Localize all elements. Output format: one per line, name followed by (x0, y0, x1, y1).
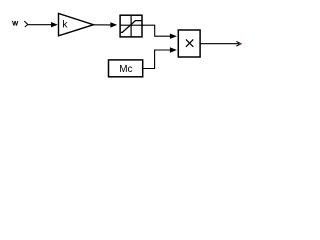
product block (178, 30, 200, 57)
product sign x stroke 1 (186, 39, 193, 46)
saturation block U1 (120, 15, 142, 37)
red tip mark on output arrow (239, 43, 241, 45)
svg-text:k: k (62, 18, 68, 30)
output open arrowhead (236, 42, 241, 47)
wire Mc to product (elbow up) (143, 50, 171, 69)
wire saturation to product (elbow down) (142, 25, 170, 36)
arrowhead into product top input (170, 34, 177, 39)
saturation vertical axis (130, 15, 132, 37)
wire from gain to saturation (94, 24, 111, 26)
output wire (200, 43, 240, 45)
arrowhead into product bottom input (170, 47, 177, 52)
wire from input port to gain (28, 24, 52, 26)
saturation horizontal axis (120, 24, 142, 26)
svg-text:w: w (11, 18, 18, 27)
constant block Mc (109, 60, 143, 77)
arrowhead into saturation (110, 22, 117, 27)
saturation curve (121, 21, 142, 33)
product sign x stroke 2 (186, 39, 193, 46)
arrowhead into gain (51, 22, 58, 27)
input port chevron (24, 21, 28, 27)
svg-text:Mc: Mc (119, 64, 132, 75)
gain triangle k (59, 13, 94, 35)
